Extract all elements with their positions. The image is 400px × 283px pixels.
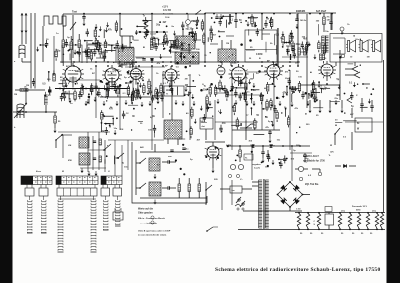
capacitor xyxy=(170,89,173,91)
node junction xyxy=(163,92,165,94)
wire xyxy=(170,48,172,54)
resistor xyxy=(305,45,308,51)
resistor xyxy=(91,86,94,92)
bridge rectifier xyxy=(278,182,303,207)
wire xyxy=(280,161,282,165)
junction dots on top bus xyxy=(83,13,85,15)
capacitor xyxy=(149,91,152,93)
ground xyxy=(194,119,197,124)
capacitor at y132 xyxy=(268,132,271,134)
legend circle symbol 2 xyxy=(151,221,154,224)
node junction xyxy=(311,94,313,96)
loudspeaker LS1 xyxy=(348,41,350,52)
long vertical drops through mid band xyxy=(95,66,97,118)
capacitor xyxy=(105,131,108,133)
ground xyxy=(315,97,318,102)
node junction xyxy=(138,90,139,91)
wire xyxy=(232,87,236,89)
node junction xyxy=(155,108,156,109)
wire xyxy=(115,47,124,49)
ground xyxy=(159,54,162,59)
wire xyxy=(226,89,228,93)
LEMI box xyxy=(164,86,184,96)
capacitor C1 on antenna bus xyxy=(82,17,85,19)
svg-text:EM/EM4: EM/EM4 xyxy=(296,10,306,13)
meter circle 2 xyxy=(238,164,243,169)
node junction xyxy=(111,73,112,74)
resistor xyxy=(260,95,263,101)
wire tube pin xyxy=(103,78,106,79)
wire xyxy=(163,39,165,43)
resistor top right xyxy=(323,17,326,25)
capacitor xyxy=(48,90,51,92)
wire xyxy=(123,111,125,115)
wire xyxy=(271,17,273,20)
wire xyxy=(274,105,276,109)
capacitor xyxy=(172,44,175,46)
mains area vertical xyxy=(231,180,233,205)
wire xyxy=(313,80,315,83)
node junction xyxy=(131,42,132,43)
node junction blob xyxy=(217,157,219,159)
node junction xyxy=(357,84,358,85)
node junction blob xyxy=(308,43,311,46)
node junction blob xyxy=(182,144,184,146)
ground xyxy=(179,53,182,58)
svg-text:AM: AM xyxy=(140,146,144,149)
svg-text:Gitte gnaden: Gitte gnaden xyxy=(138,212,153,215)
node junction xyxy=(242,92,244,94)
switch table 2 xyxy=(56,176,98,185)
wire xyxy=(244,90,246,93)
wire xyxy=(248,17,257,19)
switch arm on bus xyxy=(195,10,201,15)
node junction xyxy=(266,17,268,19)
small circles row xyxy=(228,174,231,177)
node junction xyxy=(279,162,281,164)
node junction xyxy=(240,123,242,125)
hatched coil B xyxy=(79,153,90,165)
legend circle symbol 1 xyxy=(151,216,154,219)
mains switch contacts xyxy=(238,199,240,201)
svg-text:(11.): (11.) xyxy=(372,211,376,213)
wire y32 with blobs xyxy=(135,31,168,33)
wire xyxy=(220,125,222,129)
wire y85 right xyxy=(300,84,340,86)
wire xyxy=(298,81,300,84)
ground xyxy=(69,98,72,103)
wire xyxy=(236,117,238,120)
chassis rail y88.5 xyxy=(55,88,130,90)
node junction xyxy=(131,92,132,93)
wire xyxy=(330,100,340,102)
resistor xyxy=(191,109,194,116)
wire xyxy=(169,46,181,48)
resistor xyxy=(214,87,217,94)
wire xyxy=(95,38,97,41)
wire xyxy=(166,38,168,42)
switch contact blocks xyxy=(25,188,34,196)
capacitor xyxy=(291,90,294,92)
node junction xyxy=(166,25,168,27)
resistor xyxy=(131,95,134,101)
wire xyxy=(86,41,88,50)
wire xyxy=(176,37,178,40)
node junction xyxy=(188,33,190,35)
switch between blocks xyxy=(117,153,124,159)
wire tube pin xyxy=(141,76,144,77)
ground xyxy=(338,84,341,89)
wire xyxy=(360,106,368,108)
resistor stack left xyxy=(62,40,65,48)
vertical x298 xyxy=(297,13,299,66)
wire y57 below cans xyxy=(135,56,172,58)
wire tube pin xyxy=(330,75,331,78)
wire xyxy=(289,33,291,36)
node junction xyxy=(102,114,104,116)
svg-text:6aT 26aT: 6aT 26aT xyxy=(316,10,327,13)
capacitor xyxy=(209,29,212,31)
hanging circles right xyxy=(299,177,303,181)
wire xyxy=(85,40,93,42)
resistor xyxy=(135,91,138,98)
wire tube pin xyxy=(234,80,235,83)
vertical right x307 xyxy=(306,14,308,108)
ground xyxy=(221,86,224,91)
ground xyxy=(99,26,102,31)
node junction xyxy=(63,54,64,55)
wire xyxy=(285,109,287,117)
resistor PSU xyxy=(380,214,383,229)
resistor xyxy=(287,118,290,125)
wire xyxy=(88,96,90,104)
wire xyxy=(292,86,294,90)
wire xyxy=(103,29,105,38)
ground xyxy=(139,83,142,88)
wire y130 mid xyxy=(232,129,280,131)
resistor xyxy=(94,30,97,36)
node junction xyxy=(219,36,221,38)
wire tube pin xyxy=(209,157,210,160)
wire tube pin xyxy=(205,155,208,156)
node junction xyxy=(281,112,282,113)
block frame left xyxy=(62,135,64,158)
node junction xyxy=(164,48,166,50)
svg-text:det: det xyxy=(202,125,206,128)
wire tube pin xyxy=(141,70,144,71)
wire xyxy=(321,89,323,94)
svg-text:1M: 1M xyxy=(120,129,123,131)
wire xyxy=(104,123,111,125)
node junction blob xyxy=(76,51,79,54)
wire xyxy=(104,40,106,43)
resistor xyxy=(127,87,130,94)
svg-text:Volts B opal mass oder in 1: Volts B opal mass oder in 100P xyxy=(138,230,171,233)
resistor xyxy=(233,106,236,112)
wire xyxy=(256,28,258,32)
wire xyxy=(122,46,134,48)
legend switch mark right xyxy=(206,227,213,232)
wire drop x205 long xyxy=(204,14,206,62)
wire xyxy=(253,73,255,79)
node junction xyxy=(282,46,284,48)
ground xyxy=(84,49,87,54)
resistor xyxy=(99,48,102,54)
wire top supply bus xyxy=(63,13,205,15)
svg-text:EC: EC xyxy=(92,73,95,75)
resistor xyxy=(266,102,269,108)
wire xyxy=(179,138,186,140)
capacitor xyxy=(122,114,125,116)
node junction xyxy=(68,50,70,52)
node junction xyxy=(286,158,288,160)
tube V5 EABC80 xyxy=(232,67,246,81)
ground xyxy=(252,83,255,88)
node junction xyxy=(186,130,188,132)
node junction xyxy=(310,96,312,98)
legend switch box xyxy=(113,212,123,220)
detector rail y146 xyxy=(228,145,310,147)
ground xyxy=(254,22,257,27)
node junction xyxy=(288,42,290,44)
node junction xyxy=(210,52,211,53)
wire xyxy=(137,25,145,27)
RF section box 1 xyxy=(62,45,82,63)
wire xyxy=(244,94,246,100)
power transformer windings xyxy=(259,180,263,228)
capacitor xyxy=(279,164,282,166)
svg-text:2M: 2M xyxy=(181,46,184,48)
capacitor xyxy=(97,93,100,95)
wire xyxy=(265,42,267,53)
node junction blob xyxy=(267,165,269,167)
resistor xyxy=(143,86,146,93)
left black film border xyxy=(0,0,13,283)
node junction blob xyxy=(151,59,154,62)
resistor xyxy=(90,52,93,59)
wire tube pin xyxy=(218,155,221,156)
wires below speaker box xyxy=(335,62,337,66)
ground xyxy=(187,92,190,97)
ground xyxy=(191,33,194,38)
wire xyxy=(138,121,143,123)
wire xyxy=(169,40,177,42)
node junction blob xyxy=(88,96,91,99)
capacitor xyxy=(162,43,165,45)
node junction xyxy=(366,87,367,88)
stems from blocks xyxy=(29,196,31,200)
svg-text:negativo: negativo xyxy=(252,163,261,166)
wire xyxy=(320,87,330,89)
wire xyxy=(207,37,209,42)
wire xyxy=(163,36,165,41)
wire tube pin xyxy=(132,79,133,82)
PSU choke box xyxy=(325,214,334,225)
svg-text:50Hz: 50Hz xyxy=(356,210,361,212)
capacitor xyxy=(94,86,97,88)
EM grid capacitor xyxy=(296,14,298,19)
node junction xyxy=(211,17,213,19)
node junction xyxy=(296,132,297,133)
wire xyxy=(131,92,133,95)
resistor xyxy=(63,80,66,86)
wire y122 right link xyxy=(345,121,383,123)
node junction xyxy=(293,91,295,93)
right edge vertical wire xyxy=(383,60,385,213)
ground xyxy=(149,101,152,106)
tone caps xyxy=(360,104,363,106)
junctions on rail xyxy=(239,145,241,147)
small diode circle xyxy=(217,67,225,75)
wire xyxy=(239,93,241,97)
loudspeaker LS2 xyxy=(360,41,362,52)
node junction blob xyxy=(210,83,213,86)
node junction xyxy=(353,35,354,36)
wire xyxy=(201,19,203,22)
node junction xyxy=(133,108,135,110)
wire xyxy=(148,79,150,82)
switch left power xyxy=(205,185,212,191)
ground xyxy=(141,102,144,107)
wires T1 xyxy=(121,36,123,48)
wire tube pin xyxy=(68,81,69,84)
wire xyxy=(109,44,114,46)
wire tie xyxy=(210,43,218,45)
node junction blob xyxy=(184,66,187,69)
node junction xyxy=(245,20,247,22)
capacitor xyxy=(283,159,286,161)
zigzag dropper resistor xyxy=(144,20,148,39)
svg-text:20p: 20p xyxy=(189,29,194,31)
node junction xyxy=(169,113,170,114)
wire xyxy=(276,45,278,54)
wire tube pin xyxy=(103,71,106,72)
ground xyxy=(44,92,47,97)
PSU bottom rail xyxy=(238,229,385,231)
transformer top connections xyxy=(252,181,259,183)
capacitor xyxy=(32,82,35,84)
wire xyxy=(61,93,63,97)
node junction xyxy=(108,82,110,84)
switch right xyxy=(334,128,340,135)
ground xyxy=(185,87,188,92)
wire xyxy=(105,127,107,131)
ground xyxy=(235,100,238,105)
wire tube pin xyxy=(115,81,116,84)
node junction xyxy=(344,93,346,95)
capacitor top right xyxy=(330,13,332,22)
switch table 1 xyxy=(21,176,52,185)
wire xyxy=(115,21,117,24)
cap pair right xyxy=(215,17,218,19)
node junction blob xyxy=(205,156,207,158)
node junction blob xyxy=(251,151,253,153)
wire tie xyxy=(262,33,270,35)
variable trimmer arrow xyxy=(72,15,74,58)
capacitor xyxy=(114,89,117,91)
loudspeaker LS3 xyxy=(373,41,375,52)
verticals between blocks xyxy=(114,140,116,176)
svg-text:10n: 10n xyxy=(251,124,256,126)
wire xyxy=(249,17,258,19)
ground xyxy=(253,101,256,106)
resistor xyxy=(164,35,167,42)
ground xyxy=(368,99,371,104)
node junction xyxy=(159,21,161,23)
speaker internal wires xyxy=(333,37,345,39)
switch table 3 xyxy=(101,176,122,185)
capacitor xyxy=(116,44,119,46)
resistor xyxy=(74,92,77,99)
capacitor xyxy=(93,52,96,54)
wire xyxy=(276,110,278,113)
ground xyxy=(95,24,98,29)
wire xyxy=(113,81,115,85)
resistor xyxy=(201,22,204,29)
svg-text:M: M xyxy=(62,171,64,173)
wire drop x152 xyxy=(151,14,153,40)
wire tube pin xyxy=(265,74,268,75)
node junction xyxy=(206,88,208,90)
wire xyxy=(116,40,118,44)
wire xyxy=(240,79,242,83)
band switch arms xyxy=(139,158,146,164)
node junction xyxy=(232,54,233,55)
ground xyxy=(248,79,251,84)
wire x252 to transformer xyxy=(251,146,253,180)
wire xyxy=(112,69,119,71)
wire tube pin xyxy=(108,81,109,84)
wire tube pin xyxy=(128,70,131,71)
wire xyxy=(104,159,106,163)
tube V1 ECC85 xyxy=(65,66,81,82)
PSU small box top xyxy=(325,207,332,212)
wire xyxy=(208,107,213,109)
IF transformer T2 can xyxy=(218,49,236,62)
resistor xyxy=(97,43,100,50)
capacitor xyxy=(48,91,51,93)
resistor xyxy=(251,17,254,24)
block capacitors xyxy=(93,141,96,143)
wire xyxy=(93,42,102,44)
node junction blob xyxy=(304,92,307,95)
capacitor xyxy=(273,109,276,111)
resistor xyxy=(106,90,109,97)
diode D1 right xyxy=(343,164,346,167)
capacitor xyxy=(144,21,147,23)
wire xyxy=(286,87,288,96)
capacitor xyxy=(293,54,296,56)
svg-text:(11.): (11.) xyxy=(341,211,345,213)
wire xyxy=(158,40,160,46)
wire xyxy=(233,103,235,106)
resistor xyxy=(322,54,325,60)
ground xyxy=(306,43,309,48)
wire xyxy=(235,89,237,93)
wire xyxy=(335,121,342,123)
node junction xyxy=(75,83,77,85)
resistor xyxy=(318,43,321,49)
wire tie xyxy=(88,43,98,45)
wire xyxy=(203,33,205,36)
ground mid xyxy=(272,160,275,165)
svg-text:Ratio: Ratio xyxy=(202,121,208,124)
osc top rail xyxy=(140,151,190,153)
wire xyxy=(105,50,116,52)
caption title xyxy=(215,267,380,273)
ground xyxy=(307,101,310,106)
ground xyxy=(180,41,183,46)
